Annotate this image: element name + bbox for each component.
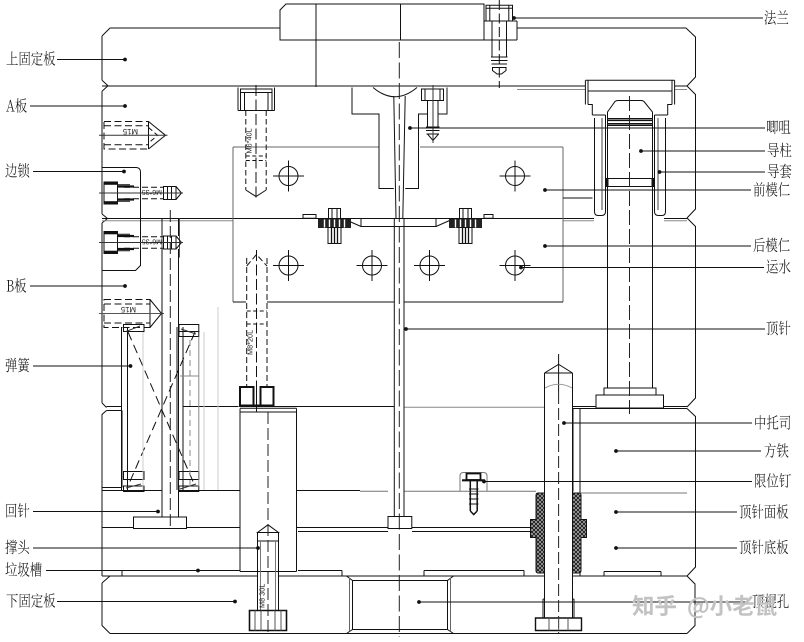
leader 顶针面板: [614, 510, 737, 514]
bolt pocket for flange bolt: [484, 21, 517, 40]
plate B板 right edge: [687, 218, 696, 407]
plate 下固定板 top line: [102, 575, 687, 577]
label 顶棍孔: [753, 594, 789, 609]
leader 下固定板: [57, 600, 237, 604]
sprue bushing 唧咀 dome and taper: [373, 88, 417, 219]
pin 中托司 foot: [536, 599, 582, 631]
guide sleeve 导套: [588, 91, 672, 216]
leader B板: [30, 284, 127, 288]
hatch pattern def: [0, 0, 1, 1]
plate 顶针面板 top line: [102, 491, 687, 494]
leader 回针: [33, 510, 160, 514]
pillar 撑头 (support pillar): [240, 408, 297, 571]
label 法兰: [765, 10, 789, 25]
plate 顶针底板 bottom / 垃圾槽 slot lines: [122, 571, 524, 577]
screw M15 side puller upper (dashed): [99, 122, 168, 150]
water line circles 运水: [273, 161, 531, 282]
guide pillar 导柱: [596, 96, 664, 414]
plate interface 面板/底板: [102, 528, 536, 532]
leader 撑头: [33, 546, 260, 550]
leader 导套: [658, 170, 765, 174]
label 撑头: [5, 540, 29, 555]
label 运水: [767, 259, 791, 273]
label 边锁: [5, 163, 29, 178]
leader 边锁: [33, 170, 126, 174]
pin 中托司 (support pin): [545, 354, 573, 634]
leader 垃圾槽: [46, 569, 200, 573]
leader 前模仁: [543, 188, 751, 192]
leader 运水: [519, 266, 764, 270]
block 边锁 (side lock): [102, 168, 180, 271]
label 顶针: [767, 321, 791, 336]
leader 顶针底板: [614, 546, 737, 550]
pin 回针 (return pin): [134, 210, 187, 530]
centerline main (mold axis): [398, 42, 400, 637]
plate 方铁 (spacer block): [573, 409, 696, 577]
leader 限位钉: [482, 480, 752, 484]
plate 上固定板 (top clamp plate) outline: [102, 28, 696, 90]
label B板: [7, 278, 27, 293]
rail left edge: [102, 411, 107, 577]
parting line A/B: [102, 214, 687, 223]
screw M6*40L (left, dashed): [238, 85, 275, 200]
label A板: [6, 98, 27, 113]
label 弹簧: [5, 358, 29, 373]
spring 弹簧: [122, 325, 199, 492]
leader A板: [30, 104, 127, 108]
leader 唧咀: [408, 126, 765, 130]
runner clamp plate at parting line: [303, 215, 493, 227]
plate A板 right edge: [687, 86, 696, 218]
screw M8*30L in support pillar: [250, 412, 287, 632]
leader 顶针: [404, 327, 765, 331]
screw 法兰 bolt (flange bolt): [486, 0, 513, 88]
plate top locating-ring box: [280, 4, 484, 87]
label 中托司: [755, 415, 790, 430]
label 导柱: [768, 143, 792, 158]
boss 顶棍孔 (KO hole boss): [347, 576, 454, 634]
label 顶针底板: [740, 540, 789, 555]
screw M15 side puller lower (dashed): [99, 300, 164, 328]
label 导套: [768, 164, 792, 179]
ejector pin 顶针 (center sprue puller): [388, 219, 412, 529]
label 唧咀: [767, 120, 790, 134]
bushing hatched right: [573, 493, 587, 573]
parting line B side second line: [102, 220, 687, 222]
plate A板 left edge: [102, 80, 108, 214]
leader 导柱: [639, 149, 765, 153]
screw M8*20L insert screw (dashed): [239, 250, 275, 412]
label 垃圾槽: [5, 562, 41, 577]
label 回针: [6, 503, 29, 518]
leader 法兰: [512, 16, 763, 20]
label 顶针面板: [740, 504, 789, 519]
block left rail: [102, 411, 122, 488]
screw 限位钉 (stop pin): [460, 473, 487, 515]
leader 后模仁: [543, 244, 751, 248]
spring pocket wall lines: [143, 307, 218, 490]
label 方铁: [765, 443, 789, 458]
insert pocket 前模仁/后模仁 walls: [233, 147, 563, 302]
screws M6*35 side lock bolts: [99, 182, 183, 254]
plate B板 bottom lines: [107, 406, 688, 409]
watermark 知乎 @小老鼠: [632, 595, 776, 618]
leader 中托司: [562, 421, 752, 425]
pocket for guide sleeve in A plate: [563, 80, 675, 198]
pocket steps around sprue: [352, 88, 447, 189]
plate B板 left edge: [102, 223, 107, 408]
label 限位钉: [755, 473, 791, 488]
leader 顶棍孔: [417, 600, 747, 604]
screw M6 sprue-bush screw (right of sprue): [422, 85, 444, 143]
label 上固定板: [7, 51, 56, 66]
label 下固定板: [7, 593, 56, 608]
leader 方铁: [614, 449, 761, 453]
leader 弹簧: [33, 364, 132, 368]
bushing hatched left: [531, 493, 545, 573]
label 前模仁: [754, 182, 790, 197]
leader 上固定板: [57, 58, 127, 62]
label 后模仁: [753, 238, 789, 253]
screws at runner clamp: [319, 209, 482, 244]
plate 下固定板 outline: [102, 576, 695, 634]
